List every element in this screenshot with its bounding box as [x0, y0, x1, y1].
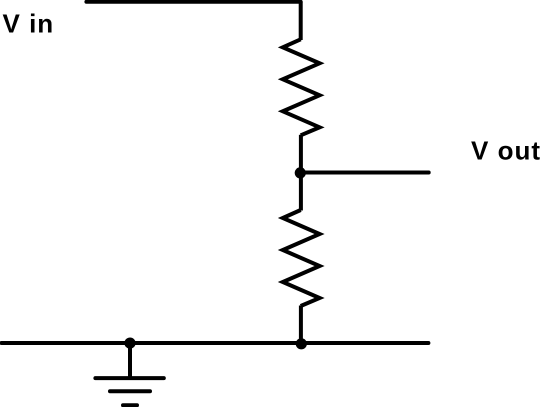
wire top horizontal (V in net) — [86, 0, 300, 4]
svg-text:V out: V out — [471, 136, 540, 166]
wire vertical from top to R1 — [299, 2, 303, 40]
ground bar 3 — [123, 403, 137, 407]
resistor R2 — [283, 210, 320, 306]
ground bar 1 — [95, 376, 163, 380]
ground bar 2 — [110, 389, 150, 393]
node bottom junction dot — [296, 338, 307, 349]
wire V out horizontal — [300, 171, 429, 175]
node ground junction dot — [124, 338, 135, 349]
wire from R2 bottom to ground net — [299, 306, 303, 344]
resistor R1 — [283, 39, 320, 135]
wire from R1 bottom to node A — [299, 135, 303, 173]
node A (junction dot) — [295, 167, 306, 178]
wire bottom horizontal (ground net) — [2, 341, 429, 345]
wire ground stem — [128, 343, 132, 378]
svg-text:V in: V in — [3, 9, 55, 39]
wire from node A to R2 — [299, 173, 303, 211]
